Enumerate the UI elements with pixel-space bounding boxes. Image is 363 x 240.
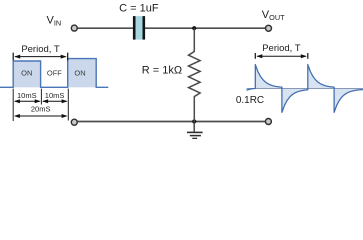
output waveform trace	[247, 65, 363, 113]
capacitor C1 cyan dielectric	[136, 16, 143, 39]
node bottom-left terminal circle	[71, 119, 77, 125]
wire bottom rail	[77, 121, 265, 123]
wire top rail V_IN to capacitor	[77, 27, 133, 29]
svg-text:10mS: 10mS	[45, 91, 65, 100]
svg-text:Period, T: Period, T	[262, 43, 301, 54]
junction dot bottom node	[192, 119, 196, 123]
node VIN terminal circle	[71, 25, 77, 31]
period dimension left tick B	[67, 53, 69, 61]
period dimension right tick B	[307, 53, 309, 59]
capacitor C1 right plate	[143, 16, 146, 39]
capacitor C1 left plate	[133, 16, 136, 39]
output waveform axis	[247, 87, 363, 89]
extension line left	[12, 89, 14, 121]
input square wave fill pulse 1	[13, 61, 40, 87]
ground stub	[193, 122, 195, 133]
period dimension right tick A	[254, 53, 256, 59]
node VOUT terminal circle	[266, 25, 272, 31]
arrow 20mS	[15, 115, 67, 117]
ground bar 1	[187, 131, 203, 133]
svg-text:ON: ON	[21, 69, 32, 78]
svg-text:0.1RC: 0.1RC	[236, 95, 264, 106]
arrow 10mS first	[15, 100, 40, 102]
svg-text:10mS: 10mS	[17, 91, 37, 100]
extension line middle	[40, 89, 42, 105]
period dimension arrow line left	[15, 56, 65, 58]
svg-text:OFF: OFF	[47, 69, 62, 78]
svg-text:VIN: VIN	[47, 15, 62, 28]
junction dot top node	[192, 26, 196, 30]
wire capacitor to V_OUT node	[145, 27, 265, 29]
input square wave trace	[0, 59, 108, 88]
output waveform fill	[247, 65, 363, 113]
extension line right	[67, 89, 69, 121]
svg-text:R = 1kΩ: R = 1kΩ	[142, 64, 182, 76]
svg-text:VOUT: VOUT	[262, 9, 285, 22]
node bottom-right terminal circle	[265, 119, 271, 125]
period dimension arrow line right	[257, 55, 306, 57]
svg-text:C = 1uF: C = 1uF	[119, 3, 159, 15]
resistor R1 zigzag	[189, 28, 201, 121]
ground bar 3	[192, 137, 197, 139]
arrow 10mS second	[43, 100, 66, 102]
ground bar 2	[190, 135, 201, 137]
input square wave fill pulse 2	[68, 59, 97, 88]
svg-text:20mS: 20mS	[31, 105, 51, 114]
period dimension left tick A	[12, 53, 14, 61]
svg-text:ON: ON	[74, 69, 85, 78]
svg-text:Period, T: Period, T	[21, 44, 60, 55]
